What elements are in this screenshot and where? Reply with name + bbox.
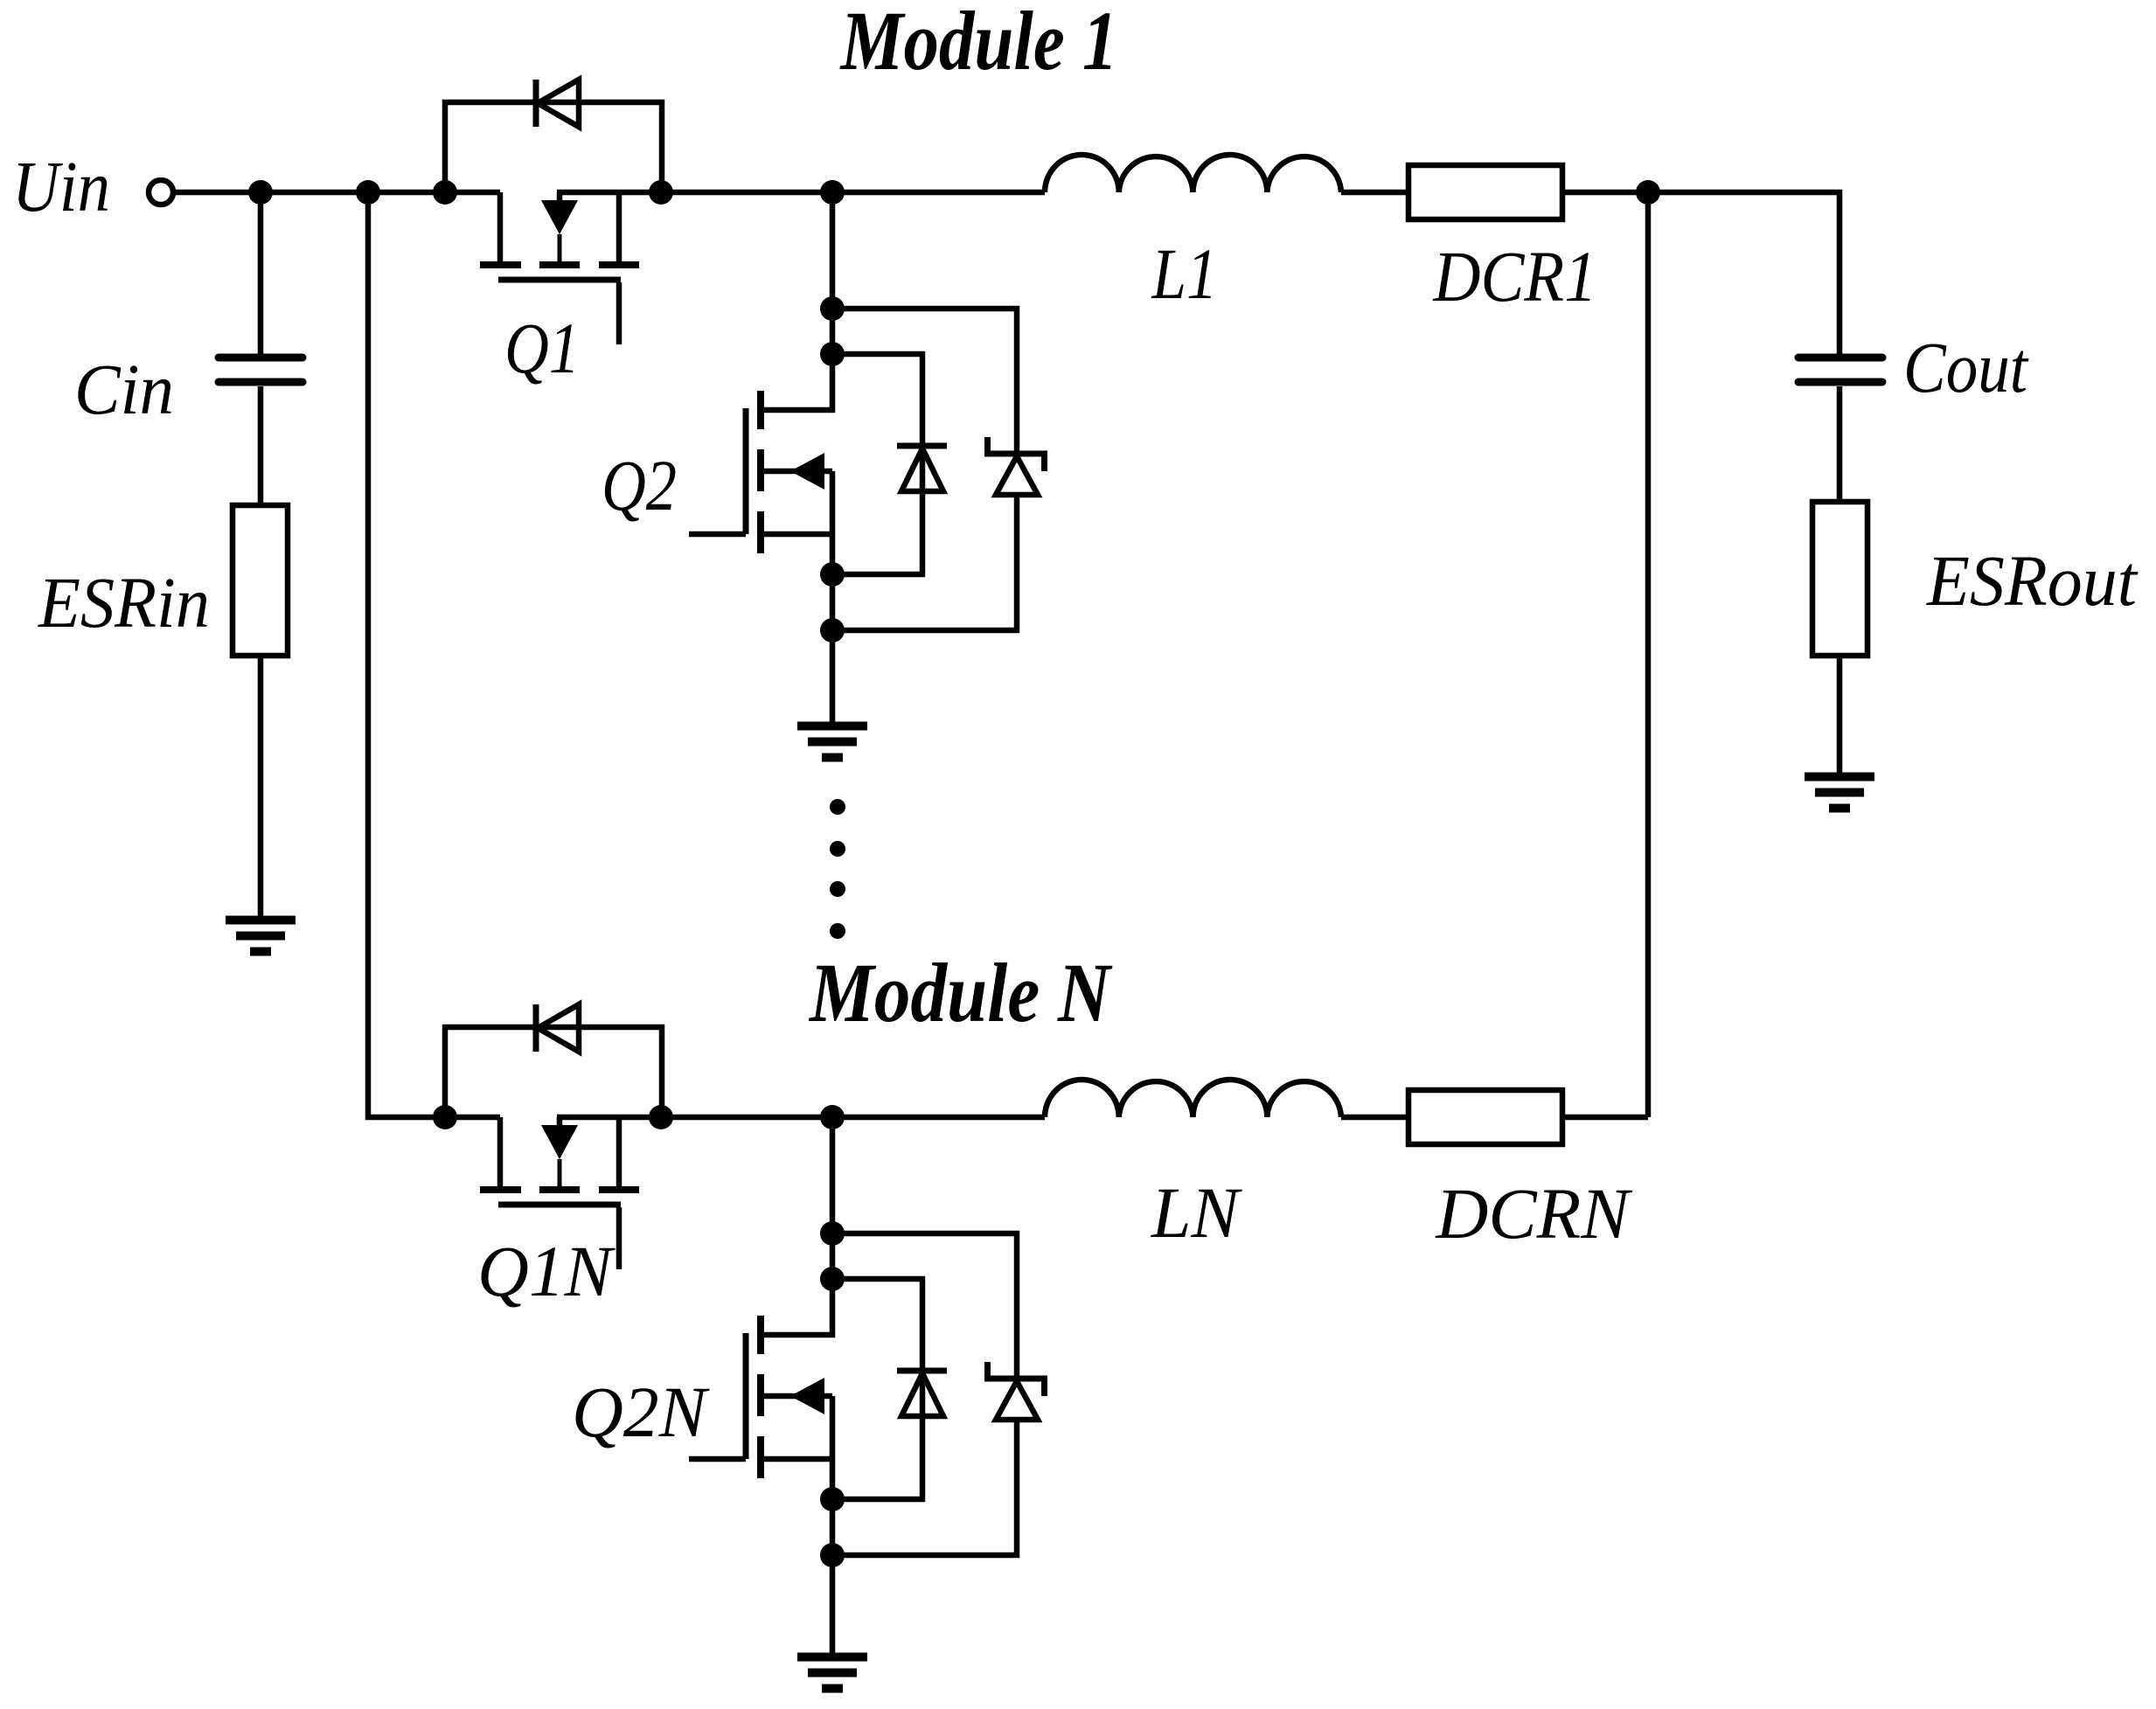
- svg-text:Q2N: Q2N: [572, 1372, 711, 1452]
- capacitor Cout: [1798, 358, 1882, 382]
- wire L1 to DCR1: [1341, 190, 1408, 196]
- wire inner diode N branch: [832, 1279, 922, 1499]
- node phase to outer diode: [820, 296, 845, 321]
- ground (Q2N): [797, 1657, 867, 1689]
- node output junction: [1636, 180, 1660, 205]
- svg-text:ESRin: ESRin: [38, 562, 210, 643]
- wire Q1N antiparallel diode loop: [445, 1027, 662, 1117]
- capacitor Cin: [219, 358, 303, 382]
- svg-text:Q1: Q1: [504, 308, 580, 388]
- wire phase N to Q2N drain: [761, 1117, 832, 1335]
- svg-text:DCRN: DCRN: [1436, 1173, 1634, 1254]
- node Q1 drain / diode anode: [433, 180, 457, 205]
- node module N feed tap: [356, 180, 380, 205]
- node Q1 source / diode cathode: [649, 180, 673, 205]
- wire DCRN to output bus: [1562, 1115, 1648, 1121]
- svg-text:LN: LN: [1151, 1172, 1243, 1253]
- svg-text:Cout: Cout: [1903, 327, 2029, 407]
- diode D2 (Schottky): [984, 437, 1047, 495]
- svg-text:ESRout: ESRout: [1926, 540, 2139, 621]
- svg-text:Q2: Q2: [602, 445, 677, 525]
- ellipsis (more modules): [830, 799, 845, 939]
- wire DCR1 to output corner and down to Cout: [1562, 192, 1840, 354]
- transistor Q1N: [480, 1117, 639, 1269]
- wire input rail (terminal to Q1 drain): [176, 190, 500, 196]
- svg-text:Uin: Uin: [12, 146, 110, 226]
- inductor LN: [1045, 1080, 1341, 1117]
- wire outer diode N branch bottom: [832, 1420, 1017, 1555]
- node Q2 source / outer diode return: [820, 618, 845, 643]
- wire Q2 source to ground: [830, 471, 836, 722]
- wire module N feed (left bus) and module N rail start: [368, 192, 500, 1117]
- node Q2 source / inner diode return: [820, 562, 845, 587]
- svg-text:DCR1: DCR1: [1433, 236, 1597, 316]
- svg-text:Cin: Cin: [74, 349, 174, 429]
- diode D3 (freewheeling): [897, 446, 947, 491]
- node phase N: [820, 1105, 845, 1129]
- ground (input): [226, 920, 296, 952]
- svg-text:Module 1: Module 1: [839, 0, 1118, 87]
- inductor L1: [1045, 155, 1341, 192]
- diode D1 (Q1 body diode): [536, 80, 579, 127]
- node Uin input terminal: [149, 180, 173, 205]
- node phase 1: [820, 180, 845, 205]
- wire ESRin to ground: [258, 656, 264, 916]
- svg-text:Q1N: Q1N: [477, 1231, 616, 1311]
- wire module N rail Q1N source to inductor LN: [557, 1115, 1045, 1121]
- wire LN to DCRN: [1341, 1115, 1408, 1121]
- node phase to inner diode: [820, 342, 845, 366]
- wire Cin to ESRin: [258, 386, 264, 505]
- wire output bus (module1 output down to module N output): [1645, 192, 1652, 1117]
- wire outer diode N branch top: [832, 1233, 1017, 1376]
- diode D3N (freewheeling): [897, 1371, 947, 1416]
- resistor ESRout: [1812, 502, 1867, 656]
- wire Q2N source to ground: [830, 1396, 836, 1653]
- svg-text:Module N: Module N: [808, 946, 1113, 1039]
- node phase N to outer diode: [820, 1221, 845, 1246]
- wire inner diode branch: [832, 354, 922, 574]
- wire rail Q1 source to inductor L1: [557, 190, 1045, 196]
- transistor Q2N: [689, 1316, 832, 1478]
- diode D1N (Q1N body diode): [536, 1004, 579, 1052]
- transistor Q2: [689, 391, 832, 553]
- ground (output): [1805, 777, 1874, 809]
- diode D2N (Schottky): [984, 1362, 1047, 1420]
- wire Cin branch: [258, 192, 264, 354]
- wire outer diode branch bottom: [832, 495, 1017, 630]
- wire ESRout to ground: [1837, 656, 1843, 773]
- transistor Q1: [480, 192, 639, 344]
- node Cin tap: [248, 180, 273, 205]
- resistor ESRin: [233, 505, 288, 656]
- wire Cout to ESRout: [1837, 386, 1843, 502]
- wire Q1 antiparallel diode loop: [445, 102, 662, 192]
- node Q2N source / outer diode return: [820, 1543, 845, 1567]
- node Q1N drain / diode anode: [433, 1105, 457, 1129]
- ground (Q2): [797, 726, 867, 758]
- svg-text:L1: L1: [1151, 233, 1218, 314]
- wire outer diode branch top: [832, 309, 1017, 451]
- node phase N to inner diode: [820, 1267, 845, 1291]
- resistor DCR1: [1408, 165, 1562, 219]
- node Q2N source / inner diode return: [820, 1487, 845, 1511]
- node Q1N source / diode cathode: [649, 1105, 673, 1129]
- resistor DCRN: [1408, 1090, 1562, 1144]
- wire phase to Q2 drain: [761, 192, 832, 410]
